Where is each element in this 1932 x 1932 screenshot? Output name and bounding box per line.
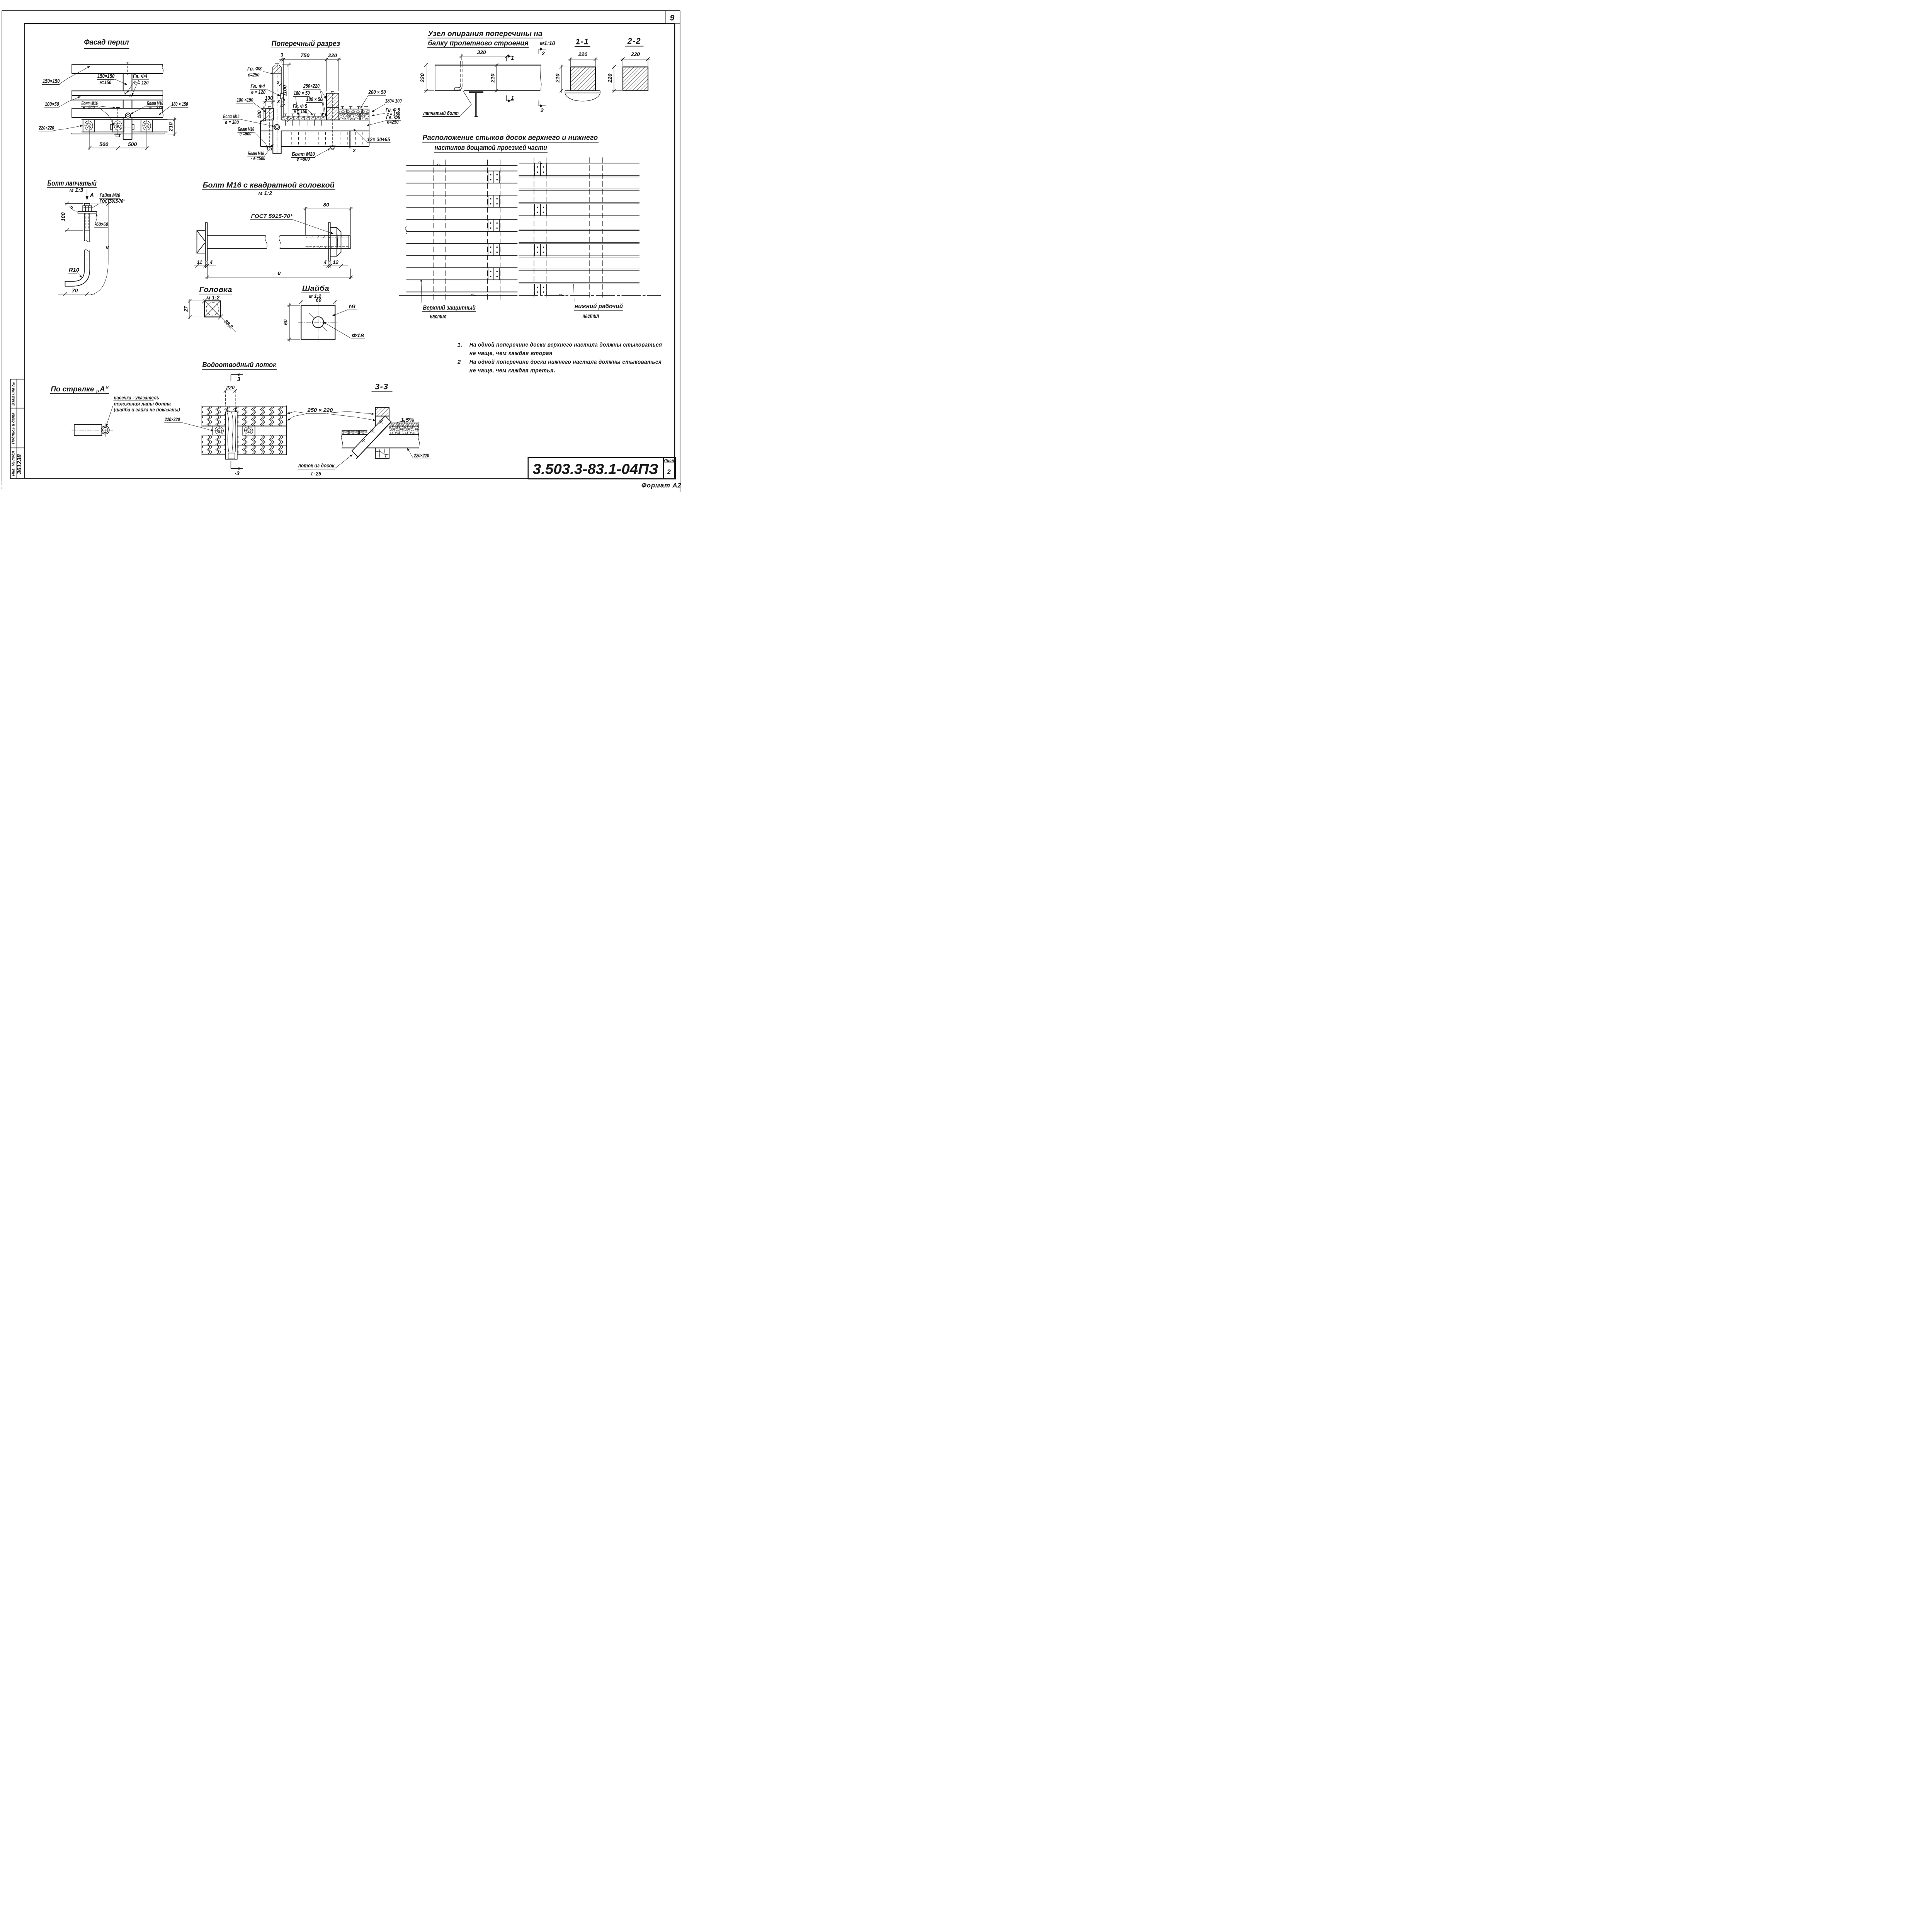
- svg-text:750: 750: [301, 52, 310, 58]
- section mark 3 top: [231, 374, 243, 381]
- svg-text:На одной поперечине доски нижн: На одной поперечине доски нижнего настил…: [469, 359, 662, 366]
- svg-text:t ·25: t ·25: [311, 471, 321, 477]
- dimension 180: [260, 106, 265, 122]
- svg-text:150×150: 150×150: [43, 78, 60, 84]
- center block 250x220: [327, 93, 339, 107]
- nails above upper right deck: [341, 107, 368, 109]
- svg-text:Головка: Головка: [199, 286, 232, 294]
- svg-text:70: 70: [72, 287, 78, 294]
- bolt shank circle: [101, 426, 109, 434]
- svg-text:500: 500: [99, 141, 109, 147]
- svg-text:180 × 50: 180 × 50: [294, 90, 310, 96]
- lower deck boards (left row): [282, 116, 327, 120]
- post centerline: [276, 68, 278, 153]
- 1-1 dim 220: [568, 58, 598, 66]
- washer at head: [206, 223, 207, 261]
- svg-text:60: 60: [283, 319, 289, 325]
- svg-text:R10: R10: [69, 267, 79, 273]
- svg-text:лапчатый болт: лапчатый болт: [423, 110, 459, 116]
- NOTES: [457, 342, 662, 374]
- slope mark 1.5%: [396, 418, 415, 423]
- svg-text:е = 380: е = 380: [149, 104, 163, 111]
- crossbeam vertical (3-3): [376, 408, 389, 459]
- svg-text:Формат А2: Формат А2: [641, 482, 682, 489]
- bolt foot top view: [74, 425, 102, 436]
- svg-text:Гв. Ф8: Гв. Ф8: [247, 66, 262, 72]
- svg-text:м 1:2: м 1:2: [206, 295, 219, 301]
- svg-text:Лист: Лист: [663, 459, 675, 463]
- svg-text:180 × 50: 180 × 50: [306, 96, 323, 102]
- plan deck band 1 (chevron): [202, 406, 286, 417]
- dim 38.2 diagonal: [202, 298, 236, 332]
- dimension 80: [303, 207, 353, 235]
- svg-text:Взам инв №: Взам инв №: [12, 382, 16, 406]
- svg-text:2: 2: [282, 98, 285, 104]
- top dimension chain: [279, 58, 341, 117]
- svg-text:220: 220: [226, 385, 235, 391]
- washer at nut: [328, 223, 330, 261]
- nail marks Gv F4: [124, 92, 133, 97]
- svg-text:ГОСТ 5915-70*: ГОСТ 5915-70*: [251, 213, 293, 219]
- svg-text:насечка - указатель: насечка - указатель: [114, 395, 160, 400]
- outer border left: [1, 11, 3, 482]
- leader to notch: [106, 405, 113, 427]
- svg-text:-60×60: -60×60: [95, 221, 108, 227]
- dimension 100: [65, 201, 83, 232]
- svg-text:настил: настил: [583, 313, 599, 320]
- long nails (dashed) in beam: [285, 132, 362, 145]
- svg-text:220: 220: [328, 52, 337, 58]
- svg-text:11: 11: [197, 259, 202, 265]
- bolt centerline: [87, 202, 88, 296]
- svg-text:2: 2: [352, 148, 356, 153]
- svg-text:180 ×150: 180 ×150: [237, 97, 253, 103]
- svg-text:3: 3: [281, 53, 283, 58]
- lower deck boards (right row 180x100): [339, 114, 369, 120]
- svg-text:·3: ·3: [235, 471, 240, 477]
- girder layer lines: [260, 109, 369, 147]
- lower working deck grid (right): [519, 158, 640, 300]
- svg-text:3.503.3-83.1-04ПЗ: 3.503.3-83.1-04ПЗ: [533, 461, 658, 477]
- svg-text:2: 2: [276, 80, 279, 85]
- 2-2 dim 220 vertical: [612, 65, 622, 93]
- svg-text:1: 1: [511, 55, 514, 61]
- svg-text:3-3: 3-3: [375, 382, 388, 391]
- page number box: [665, 11, 667, 24]
- svg-text:150×150: 150×150: [97, 73, 115, 79]
- crossbeam block 220x220 #2: [112, 120, 124, 132]
- svg-text:нижний рабочий: нижний рабочий: [575, 303, 623, 310]
- outer border top: [2, 10, 680, 12]
- dimension 1100: [282, 63, 291, 122]
- vertical bolt M16 e500: [116, 107, 120, 108]
- svg-text:Гв. Ф4: Гв. Ф4: [133, 73, 148, 79]
- svg-text:2-2: 2-2: [627, 36, 641, 46]
- outer border right: [679, 11, 681, 492]
- nail shanks into girder: [286, 120, 322, 126]
- svg-text:1.: 1.: [457, 342, 463, 348]
- svg-text:е: е: [106, 244, 109, 250]
- washer thickness mark 6: [72, 209, 77, 212]
- dimension e (bolt length): [205, 262, 353, 279]
- top rail 150x150: [72, 64, 163, 74]
- 1-1 bearing bowl: [565, 93, 600, 101]
- right deck rows (3-3): [389, 422, 419, 435]
- grid bottom line extensions: [399, 294, 518, 296]
- section line 2 right: [348, 131, 352, 149]
- section line 2-2: [539, 48, 546, 107]
- svg-text:Подпись и дата: Подпись и дата: [12, 413, 16, 444]
- dimension 70: [58, 287, 95, 296]
- middle rails 100x50: [72, 90, 163, 100]
- crossbeam block 220x220 #1: [83, 120, 95, 132]
- svg-text:Фасад перил: Фасад перил: [84, 38, 129, 47]
- thread hatch ticks: [306, 236, 342, 248]
- svg-text:180: 180: [257, 111, 262, 119]
- svg-text:60: 60: [316, 297, 321, 303]
- svg-text:м 1:3: м 1:3: [70, 187, 83, 193]
- svg-text:балку пролетного строения: балку пролетного строения: [428, 39, 529, 47]
- svg-text:Поперечный разрез: Поперечный разрез: [272, 39, 340, 48]
- dimension 320: [459, 54, 509, 60]
- svg-text:положения лапы болта: положения лапы болта: [114, 401, 171, 406]
- bolt top end: [84, 204, 90, 206]
- svg-text:Шайба: Шайба: [302, 284, 329, 293]
- svg-text:е =800: е =800: [297, 156, 310, 162]
- centerlines: [72, 429, 113, 431]
- plan deck band 2 (chevron): [202, 415, 286, 427]
- washer square: [301, 305, 335, 339]
- svg-text:Ф18: Ф18: [352, 332, 364, 338]
- centerlines: [298, 322, 338, 323]
- svg-text:настил: настил: [430, 313, 447, 320]
- dimension 220 left: [424, 63, 434, 93]
- railing post: [273, 65, 281, 154]
- nail crosses on trough: [362, 420, 383, 442]
- girder 180x150: [72, 108, 163, 118]
- trough stud (central block): [226, 408, 237, 459]
- svg-text:220×220: 220×220: [39, 125, 54, 131]
- svg-text:180× 100: 180× 100: [385, 98, 402, 104]
- svg-text:500: 500: [128, 141, 137, 147]
- svg-text:(шайба и гайка не показаны): (шайба и гайка не показаны): [114, 407, 180, 413]
- svg-text:По стрелке „А“: По стрелке „А“: [51, 385, 109, 393]
- svg-text:Гв. Ф4: Гв. Ф4: [250, 83, 265, 89]
- svg-text:А: А: [90, 192, 94, 199]
- nut M20: [83, 206, 92, 212]
- svg-text:е=250: е=250: [248, 71, 260, 78]
- break marks right grid: [560, 294, 565, 296]
- dimension 130: [264, 100, 275, 107]
- svg-text:настилов дощатой проезжей ч: настилов дощатой проезжей части: [435, 144, 547, 151]
- joint plates with nails (right grid): [535, 163, 547, 295]
- dimension 210: [164, 117, 176, 136]
- threaded shank: [84, 213, 90, 230]
- post centerline: [126, 62, 130, 64]
- svg-text:320: 320: [477, 49, 486, 55]
- dimension e (length): [91, 202, 110, 295]
- svg-text:250 × 220: 250 × 220: [307, 407, 333, 413]
- svg-text:ГОСТ5915-70*: ГОСТ5915-70*: [100, 198, 125, 204]
- svg-text:1-1: 1-1: [575, 37, 589, 46]
- svg-text:2: 2: [667, 468, 671, 476]
- left deck boards row (3-3): [342, 430, 367, 435]
- svg-text:t6: t6: [349, 303, 355, 310]
- section line 1-1: [507, 55, 514, 102]
- TITLE BLOCK: [528, 457, 675, 479]
- plan deck band 3 (chevron lower): [202, 406, 286, 456]
- deck band (horizontal): [341, 434, 420, 449]
- svg-text:е =500: е =500: [83, 104, 95, 111]
- svg-text:е=150: е=150: [100, 79, 112, 85]
- svg-text:1100: 1100: [282, 85, 288, 97]
- bracket bolt M16: [268, 107, 271, 109]
- svg-text:3: 3: [237, 376, 240, 383]
- svg-text:1: 1: [511, 95, 514, 101]
- upper protective deck grid (left): [406, 160, 518, 300]
- nut (side profile): [330, 228, 341, 256]
- svg-text:2: 2: [457, 359, 461, 366]
- svg-text:3: 3: [277, 99, 280, 104]
- inner frame: [25, 24, 675, 479]
- svg-text:1,5%: 1,5%: [401, 417, 414, 423]
- crossbeam row with blocks: [202, 426, 286, 436]
- claw bolt (lapchaty bolt): [455, 61, 462, 90]
- 1-1 flange plate: [565, 90, 600, 92]
- svg-text:е: е: [277, 270, 281, 277]
- svg-text:27: 27: [183, 306, 189, 312]
- svg-text:е = 150: е = 150: [294, 108, 307, 114]
- upper deck boards (right row 200x50): [339, 109, 369, 114]
- svg-text:е=250: е=250: [387, 119, 399, 125]
- svg-text:250×220: 250×220: [303, 83, 320, 89]
- svg-text:Водоотводный лоток: Водоотводный лоток: [202, 361, 277, 369]
- svg-text:210: 210: [554, 73, 561, 83]
- washer hole: [313, 317, 324, 328]
- deck row lines: [82, 118, 168, 121]
- dimension 210: [495, 63, 498, 92]
- svg-text:Расположение стыков досок в: Расположение стыков досок верхнего и ниж…: [423, 134, 598, 141]
- svg-text:180 × 150: 180 × 150: [172, 101, 188, 107]
- crossbeam block 220x220 #3: [141, 120, 153, 132]
- svg-text:не чаще, чем каждая вторая: не чаще, чем каждая вторая: [469, 350, 553, 357]
- svg-text:м 1:2: м 1:2: [258, 190, 272, 197]
- svg-text:12: 12: [333, 259, 339, 265]
- svg-text:210: 210: [490, 73, 496, 83]
- svg-text:е = 120: е = 120: [134, 80, 149, 86]
- shank lower piece with hook: [65, 250, 90, 286]
- diagonal trough board: [352, 416, 391, 459]
- svg-text:220: 220: [578, 51, 588, 57]
- dimensions 11 4: [194, 254, 217, 268]
- svg-text:100: 100: [60, 212, 66, 221]
- post top nail: [275, 63, 279, 65]
- washer 60x60: [78, 212, 97, 213]
- handrail bolt circle: [274, 124, 280, 130]
- nails above left deck row: [284, 114, 323, 117]
- nail Gv F4 on post: [281, 94, 284, 99]
- svg-text:220×220: 220×220: [165, 416, 180, 422]
- svg-text:· е =500: · е =500: [251, 155, 265, 162]
- 2-2 dim 220: [621, 58, 651, 66]
- svg-text:е = 380: е = 380: [225, 119, 239, 125]
- bottom plank strip: [71, 133, 164, 134]
- svg-text:не чаще, чем каждая третья.: не чаще, чем каждая третья.: [469, 367, 556, 374]
- beam (crossbeam side view): [435, 65, 541, 92]
- shank left part: [207, 236, 267, 248]
- svg-text:е =500: е =500: [240, 131, 252, 137]
- svg-text:100×50: 100×50: [45, 101, 59, 107]
- svg-text:м1:10: м1:10: [540, 41, 555, 47]
- svg-text:220: 220: [419, 73, 425, 83]
- svg-text:Болт М16 с квадратной голо: Болт М16 с квадратной головкой: [203, 181, 335, 190]
- svg-text:На одной поперечине доски верх: На одной поперечине доски верхнего насти…: [469, 342, 662, 348]
- head square with cross: [204, 301, 221, 317]
- bolt centerline: [194, 241, 295, 243]
- svg-text:Болт М16: Болт М16: [223, 113, 240, 119]
- svg-text:Инв. №·подл: Инв. №·подл: [12, 451, 16, 476]
- section mark 3 bottom: [231, 461, 243, 469]
- dimensions 4 12 right: [323, 253, 348, 268]
- dim 60 left: [287, 303, 300, 342]
- square head (side view): [197, 231, 206, 253]
- LEFT MARGIN BOXES: [10, 379, 25, 479]
- svg-text:80: 80: [323, 202, 329, 208]
- dimension 500 500: [88, 128, 149, 150]
- svg-text:9: 9: [670, 14, 675, 22]
- svg-text:210: 210: [168, 122, 174, 132]
- svg-text:12× 30÷65: 12× 30÷65: [367, 136, 390, 143]
- dim 27: [188, 299, 204, 319]
- horizontal bolt through crossbeam row: [112, 126, 135, 128]
- svg-text:130: 130: [265, 95, 273, 101]
- svg-text:2: 2: [541, 50, 545, 56]
- shank right part with thread: [279, 236, 350, 248]
- svg-text:2: 2: [540, 107, 544, 113]
- plain shank upper piece: [84, 230, 90, 242]
- svg-text:361238: 361238: [16, 454, 23, 474]
- svg-text:лоток из досок: лоток из досок: [298, 463, 335, 469]
- break marks left grid: [405, 226, 408, 234]
- left bracket (hatched): [266, 109, 274, 120]
- svg-text:4: 4: [209, 259, 213, 265]
- svg-text:е = 120: е = 120: [251, 89, 265, 95]
- horizontal bolt M16 e380: [126, 113, 131, 118]
- svg-text:Болт лапчатый: Болт лапчатый: [48, 179, 97, 188]
- svg-text:220×220: 220×220: [413, 452, 429, 459]
- 2-2 crossbeam square: [623, 67, 648, 91]
- svg-text:220: 220: [631, 51, 640, 57]
- svg-text:200 × 50: 200 × 50: [368, 89, 386, 95]
- svg-text:220: 220: [607, 73, 613, 83]
- svg-text:Узел опирания поперечины на: Узел опирания поперечины на: [428, 30, 543, 37]
- svg-text:Гайка М20: Гайка М20: [100, 192, 120, 198]
- 1-1 dim 210: [560, 65, 570, 93]
- arrow A: [86, 189, 88, 200]
- post: [123, 73, 132, 139]
- lower block crack texture: [376, 448, 389, 458]
- steel I-beam below: [469, 92, 483, 117]
- 1-1 crossbeam square: [570, 67, 595, 91]
- svg-text:Верхний защитный: Верхний защитный: [423, 304, 476, 311]
- bolt M20 through block: [331, 91, 334, 93]
- svg-text:4: 4: [323, 259, 327, 265]
- joint plates with nails (left grid): [488, 171, 500, 280]
